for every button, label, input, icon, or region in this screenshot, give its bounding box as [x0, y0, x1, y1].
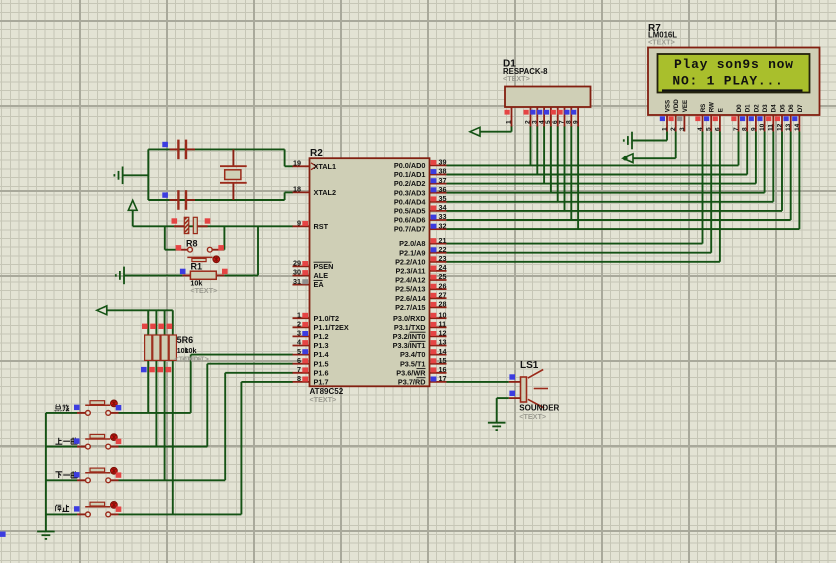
- svg-text:<TEXT>: <TEXT>: [310, 395, 337, 404]
- svg-text:28: 28: [439, 300, 447, 309]
- svg-text:6: 6: [714, 127, 721, 131]
- svg-text:11: 11: [768, 124, 775, 131]
- svg-text:1: 1: [661, 127, 668, 131]
- svg-text:2: 2: [297, 320, 301, 329]
- svg-text:P1.6: P1.6: [314, 368, 329, 377]
- svg-text:D5: D5: [779, 104, 786, 112]
- svg-text:19: 19: [293, 159, 301, 168]
- svg-text:P1.7: P1.7: [314, 378, 329, 387]
- svg-text:VEE: VEE: [682, 100, 689, 112]
- svg-text:P0.2/AD2: P0.2/AD2: [394, 179, 426, 188]
- svg-text:35: 35: [439, 194, 447, 203]
- svg-text:4: 4: [697, 127, 704, 131]
- svg-text:23: 23: [439, 254, 447, 263]
- svg-text:21: 21: [439, 236, 447, 245]
- svg-text:12: 12: [776, 123, 783, 131]
- svg-text:E: E: [717, 108, 724, 112]
- svg-text:13: 13: [439, 338, 447, 347]
- svg-text:RST: RST: [314, 222, 329, 231]
- svg-text:P0.1/AD1: P0.1/AD1: [394, 170, 426, 179]
- svg-text:22: 22: [439, 245, 447, 254]
- svg-text:3: 3: [679, 127, 686, 131]
- svg-text:P1.1/T2EX: P1.1/T2EX: [314, 323, 349, 332]
- svg-text:34: 34: [439, 203, 447, 212]
- svg-text:P3.5/T1: P3.5/T1: [400, 359, 426, 368]
- svg-text:XTAL1: XTAL1: [314, 162, 337, 171]
- svg-text:37: 37: [439, 176, 447, 185]
- svg-text:P1.3: P1.3: [314, 341, 329, 350]
- svg-text:9: 9: [572, 120, 579, 124]
- svg-text:P3.7/RD: P3.7/RD: [398, 378, 426, 387]
- svg-text:26: 26: [439, 281, 447, 290]
- svg-text:R1: R1: [191, 261, 203, 271]
- svg-text:32: 32: [439, 221, 447, 230]
- svg-text:8: 8: [297, 374, 301, 383]
- svg-text:1: 1: [506, 120, 513, 124]
- svg-text:P2.3/A11: P2.3/A11: [395, 267, 425, 276]
- svg-text:6: 6: [297, 356, 301, 365]
- svg-text:P3.6/WR: P3.6/WR: [396, 368, 426, 377]
- svg-text:RW: RW: [709, 102, 716, 112]
- svg-text:4: 4: [297, 338, 301, 347]
- svg-text:ALE: ALE: [314, 271, 329, 280]
- svg-text:<TEXT>: <TEXT>: [190, 286, 217, 295]
- svg-text:<TEXT>: <TEXT>: [648, 37, 675, 46]
- svg-text:17: 17: [439, 374, 447, 383]
- svg-text:P2.7/A15: P2.7/A15: [395, 303, 425, 312]
- svg-text:RS: RS: [700, 104, 707, 113]
- svg-text:10: 10: [439, 310, 447, 319]
- svg-text:P2.2/A10: P2.2/A10: [395, 257, 425, 266]
- svg-text:P0.5/AD5: P0.5/AD5: [394, 207, 426, 216]
- svg-text:P3.1/TXD: P3.1/TXD: [394, 323, 426, 332]
- svg-text:33: 33: [439, 212, 447, 221]
- svg-text:13: 13: [785, 123, 792, 131]
- svg-text:P2.5/A13: P2.5/A13: [395, 285, 425, 294]
- svg-text:16: 16: [439, 365, 447, 374]
- svg-text:P1.4: P1.4: [314, 350, 330, 359]
- svg-text:XTAL2: XTAL2: [314, 188, 337, 197]
- svg-text:25: 25: [439, 272, 447, 281]
- svg-text:15: 15: [439, 356, 447, 365]
- svg-text:<TEXT>: <TEXT>: [182, 355, 209, 364]
- svg-text:P3.2/INT0: P3.2/INT0: [393, 332, 426, 341]
- svg-text:<TEXT>: <TEXT>: [519, 412, 546, 421]
- svg-text:8: 8: [742, 127, 749, 131]
- svg-text:31: 31: [293, 277, 301, 286]
- svg-text:D3: D3: [762, 104, 769, 112]
- svg-text:14: 14: [794, 123, 801, 131]
- svg-text:P2.0/A8: P2.0/A8: [399, 239, 425, 248]
- svg-text:P2.4/A12: P2.4/A12: [395, 276, 425, 285]
- svg-text:12: 12: [439, 329, 447, 338]
- svg-text:18: 18: [293, 185, 301, 194]
- svg-text:11: 11: [439, 320, 447, 329]
- svg-text:D0: D0: [736, 104, 743, 112]
- svg-text:P2.1/A9: P2.1/A9: [399, 248, 425, 257]
- svg-text:9: 9: [297, 219, 301, 228]
- svg-text:14: 14: [439, 347, 447, 356]
- svg-text:30: 30: [293, 268, 301, 277]
- svg-text:3: 3: [297, 329, 301, 338]
- svg-text:P0.7/AD7: P0.7/AD7: [394, 225, 426, 234]
- svg-text:1: 1: [297, 310, 301, 319]
- svg-text:P0.3/AD3: P0.3/AD3: [394, 188, 426, 197]
- svg-text:P3.0/RXD: P3.0/RXD: [393, 314, 425, 323]
- svg-text:5: 5: [706, 127, 713, 131]
- svg-text:P3.3/INT1: P3.3/INT1: [393, 341, 426, 350]
- svg-text:D6: D6: [788, 104, 795, 112]
- svg-text:LS1: LS1: [520, 360, 539, 371]
- svg-text:5R6: 5R6: [177, 335, 194, 345]
- svg-text:P0.0/AD0: P0.0/AD0: [394, 161, 426, 170]
- svg-text:<TEXT>: <TEXT>: [503, 74, 530, 83]
- svg-text:P3.4/T0: P3.4/T0: [400, 350, 426, 359]
- svg-text:VSS: VSS: [664, 100, 671, 112]
- svg-text:39: 39: [439, 158, 447, 167]
- svg-text:P1.5: P1.5: [314, 359, 329, 368]
- svg-text:36: 36: [439, 185, 447, 194]
- svg-text:27: 27: [439, 290, 447, 299]
- svg-text:EA: EA: [314, 280, 325, 289]
- svg-text:24: 24: [439, 263, 447, 272]
- svg-text:D2: D2: [753, 104, 760, 112]
- svg-text:10: 10: [759, 123, 766, 131]
- svg-text:P1.2: P1.2: [314, 332, 329, 341]
- svg-text:R8: R8: [186, 239, 198, 249]
- svg-text:D7: D7: [797, 104, 804, 112]
- svg-text:29: 29: [293, 259, 301, 268]
- svg-text:PSEN: PSEN: [314, 262, 334, 271]
- svg-text:38: 38: [439, 167, 447, 176]
- svg-text:9: 9: [750, 127, 757, 131]
- svg-text:P0.4/AD4: P0.4/AD4: [394, 197, 427, 206]
- svg-text:2: 2: [670, 127, 677, 131]
- svg-text:D4: D4: [771, 104, 778, 112]
- svg-text:P1.0/T2: P1.0/T2: [314, 314, 340, 323]
- svg-text:P2.6/A14: P2.6/A14: [395, 294, 426, 303]
- svg-text:7: 7: [733, 127, 740, 131]
- svg-text:VDD: VDD: [673, 99, 680, 113]
- svg-text:Play son9s now: Play son9s now: [674, 57, 794, 72]
- svg-text:NO: 1 PLAY...: NO: 1 PLAY...: [672, 73, 783, 88]
- svg-text:7: 7: [297, 365, 301, 374]
- svg-text:5: 5: [297, 347, 301, 356]
- svg-text:D1: D1: [745, 104, 752, 112]
- svg-text:R2: R2: [310, 148, 323, 159]
- svg-text:P0.6/AD6: P0.6/AD6: [394, 216, 426, 225]
